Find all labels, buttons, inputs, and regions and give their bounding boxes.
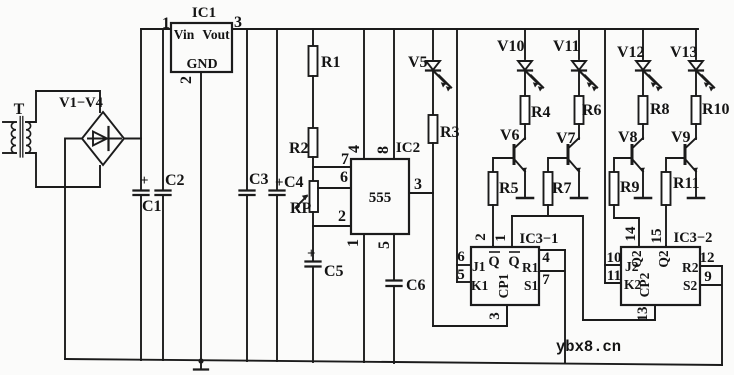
potentiometer RP — [296, 181, 318, 260]
capacitor C5 — [306, 262, 321, 363]
wire IC3-2 pin15 — [665, 246, 667, 247]
svg-text:5: 5 — [457, 267, 465, 283]
svg-text:S1: S1 — [524, 278, 539, 293]
wire IC3-2 pin13 stub — [654, 305, 656, 320]
svg-text:C3: C3 — [249, 171, 269, 188]
svg-text:4: 4 — [346, 145, 363, 153]
wire IC1 pin2 gnd — [200, 72, 202, 361]
svg-text:+: + — [140, 173, 149, 189]
555 timer IC2 — [351, 159, 409, 234]
wire 555 pin5 — [393, 234, 395, 280]
svg-text:R9: R9 — [620, 179, 640, 196]
resistor R9 — [610, 172, 619, 218]
svg-text:14: 14 — [623, 226, 639, 242]
LED V12 — [636, 29, 661, 96]
svg-text:V8: V8 — [618, 129, 638, 146]
LED V11 — [572, 29, 597, 96]
wire 555 pin3 — [409, 192, 433, 194]
svg-text:6: 6 — [457, 249, 465, 265]
resistor R10 — [692, 96, 701, 139]
svg-text:R6: R6 — [582, 102, 602, 119]
svg-text:K1: K1 — [471, 278, 489, 293]
wire 555 pin8 — [393, 29, 395, 159]
wire IC3-1 pin2 — [492, 246, 494, 247]
svg-text:V5: V5 — [408, 54, 428, 71]
transistor V8 — [614, 138, 651, 198]
svg-text:R4: R4 — [531, 104, 551, 121]
svg-text:13: 13 — [635, 307, 651, 322]
svg-text:R11: R11 — [673, 175, 700, 192]
svg-text:C1: C1 — [142, 198, 162, 215]
svg-text:Q2: Q2 — [629, 250, 644, 268]
wire bridge minus to ground — [65, 139, 82, 360]
wire CP2 route — [583, 305, 655, 320]
svg-text:Vin: Vin — [174, 27, 195, 42]
wire 555 pin1 — [363, 234, 365, 362]
svg-text:1: 1 — [345, 239, 362, 247]
svg-text:15: 15 — [649, 229, 665, 244]
wire JK high feed 1 — [456, 29, 458, 282]
svg-text:IC3−2: IC3−2 — [674, 230, 713, 246]
resistor R11 — [662, 172, 671, 247]
svg-text:CP1: CP1 — [496, 273, 511, 298]
svg-text:Vout: Vout — [202, 27, 230, 42]
svg-text:V1−V4: V1−V4 — [59, 95, 103, 111]
LED V5 — [426, 29, 451, 115]
svg-text:Q2: Q2 — [656, 250, 671, 268]
svg-text:C6: C6 — [406, 277, 426, 294]
svg-text:10: 10 — [607, 250, 622, 266]
capacitor C2 — [156, 29, 171, 360]
svg-text:R2: R2 — [289, 140, 309, 157]
capacitor C6 — [387, 281, 402, 364]
resistor R1 — [309, 29, 318, 128]
svg-text:V12: V12 — [617, 44, 645, 61]
wire 555 pin4 — [363, 29, 365, 159]
svg-text:GND: GND — [186, 57, 217, 72]
svg-text:CP2: CP2 — [637, 272, 652, 297]
svg-text:RP: RP — [290, 200, 312, 217]
svg-text:8: 8 — [375, 146, 392, 154]
svg-text:V13: V13 — [670, 44, 698, 61]
wire IC3-1 pin7 S1 — [539, 250, 565, 363]
resistor R7 — [544, 172, 553, 216]
resistor R5 — [489, 172, 498, 247]
svg-text:1: 1 — [162, 15, 170, 32]
wire IC3-1 pin4 R1 — [539, 249, 565, 251]
svg-text:S2: S2 — [683, 278, 698, 293]
svg-text:R1: R1 — [522, 260, 539, 275]
resistor R8 — [639, 96, 648, 139]
wire 555 pin7 — [313, 166, 351, 168]
wire J1 pin6 — [457, 264, 471, 266]
svg-text:3: 3 — [414, 176, 422, 193]
svg-text:2: 2 — [473, 233, 489, 241]
svg-text:V10: V10 — [497, 38, 525, 55]
svg-text:4: 4 — [542, 250, 550, 266]
svg-text:Q: Q — [508, 254, 519, 270]
svg-text:R8: R8 — [650, 101, 670, 118]
wire K1 pin5 — [457, 281, 471, 283]
svg-text:V11: V11 — [553, 38, 580, 55]
svg-text:7: 7 — [542, 272, 550, 288]
wire IC3-2 pin12 R2 — [700, 265, 722, 267]
svg-text:ybx8.cn: ybx8.cn — [556, 338, 621, 356]
wire bottom ground bus — [65, 359, 722, 365]
capacitor C1 — [134, 29, 149, 360]
wire IC3-2 pin9 S2 — [700, 266, 722, 365]
resistor R2 — [309, 128, 318, 181]
svg-text:C2: C2 — [165, 172, 185, 189]
transistor V6 — [493, 138, 533, 198]
svg-text:2: 2 — [178, 76, 195, 84]
transistor V9 — [666, 138, 704, 198]
svg-text:+: + — [307, 246, 316, 262]
svg-text:IC3−1: IC3−1 — [520, 231, 559, 247]
transistor V7 — [548, 138, 587, 198]
wire JK high feed 2 — [604, 29, 606, 283]
IC3-2 flip-flop — [621, 247, 700, 305]
svg-text:J1: J1 — [472, 259, 486, 274]
resistor R4 — [521, 96, 530, 139]
wire IC3-1 pin1 — [511, 216, 513, 247]
svg-text:555: 555 — [369, 190, 392, 206]
svg-text:1: 1 — [493, 234, 509, 242]
svg-text:R1: R1 — [321, 54, 341, 71]
svg-text:R7: R7 — [552, 180, 572, 197]
wire J2 pin10 — [605, 264, 621, 266]
svg-text:C4: C4 — [284, 174, 304, 191]
svg-text:R5: R5 — [499, 180, 519, 197]
svg-text:3: 3 — [234, 14, 242, 31]
svg-text:IC2: IC2 — [396, 140, 420, 156]
svg-text:R10: R10 — [702, 101, 730, 118]
svg-text:6: 6 — [340, 169, 348, 186]
transformer T — [3, 91, 100, 187]
bridge rectifier V1-V4 — [82, 112, 124, 165]
capacitor C3 — [240, 29, 255, 361]
svg-text:R3: R3 — [440, 124, 460, 141]
wire IC3-1 pin3 stub — [506, 305, 508, 326]
wire 555 pin2 — [313, 225, 351, 227]
svg-text:T: T — [14, 101, 25, 118]
svg-text:9: 9 — [704, 269, 712, 285]
node junction dot — [198, 358, 203, 363]
ground — [194, 361, 208, 370]
svg-text:3: 3 — [487, 312, 503, 320]
wire 555 pin6 — [318, 187, 351, 189]
LED V13 — [689, 29, 714, 96]
svg-text:5: 5 — [376, 241, 393, 249]
IC3-1 flip-flop — [471, 247, 539, 305]
svg-text:11: 11 — [607, 268, 621, 284]
resistor R3 — [429, 115, 438, 326]
overbar Q1 — [509, 251, 520, 253]
wire bridge plus to C1 node — [124, 138, 141, 140]
svg-text:+: + — [275, 175, 284, 191]
svg-text:Q: Q — [488, 254, 499, 270]
wire CP1 route — [433, 305, 507, 326]
wire top bus V+ — [232, 28, 698, 30]
LED V10 — [518, 29, 543, 96]
wire K2 pin11 — [605, 282, 621, 284]
wire IC1 pin1 input — [141, 28, 171, 30]
svg-text:R2: R2 — [682, 260, 699, 275]
svg-text:V7: V7 — [556, 130, 576, 147]
svg-text:C5: C5 — [324, 263, 344, 280]
resistor R6 — [575, 96, 584, 139]
capacitor C4 — [270, 29, 285, 361]
overbar Q1bar — [489, 251, 500, 253]
svg-text:12: 12 — [700, 250, 715, 266]
svg-text:V9: V9 — [671, 129, 691, 146]
svg-text:V6: V6 — [500, 127, 520, 144]
wire Q2 pin14 route — [614, 218, 639, 247]
IC1 regulator — [171, 23, 232, 72]
svg-text:IC1: IC1 — [192, 5, 216, 21]
wire Q1 to R7 and CP2 — [512, 216, 583, 320]
svg-text:2: 2 — [338, 208, 346, 225]
